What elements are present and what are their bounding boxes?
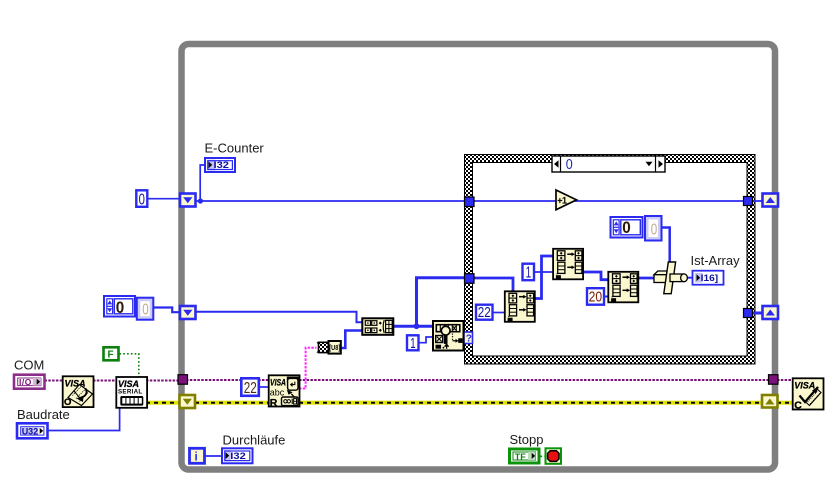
numeric indicator box (outside loop) [137,298,154,320]
svg-text:Stopp: Stopp [510,432,544,447]
insert-into-array spool function [654,262,687,294]
svg-text:TF: TF [515,452,526,462]
VISA read function [269,375,300,409]
case structure border [465,155,756,365]
svg-text:0: 0 [622,218,631,237]
svg-text:COM: COM [14,358,44,373]
wire: 20 constant to array-subset C [604,296,609,298]
VISA resource wire: VISA read to right tunnel [299,379,770,381]
shift register right top (counter) [763,194,779,207]
1 constant (to array-subset A) [523,264,535,282]
+1 increment function [556,190,577,210]
case selector terminal [464,332,473,345]
case selector label [552,156,665,173]
wire: array branch up into case tunnel [417,278,466,327]
Baudrate label [17,407,70,422]
svg-text:22: 22 [478,304,491,321]
loop tunnel purple left [178,375,188,385]
string wire: VISA read to string-to-byte-array [299,348,317,389]
loop stop condition terminal [546,448,562,464]
1 constant (search index) [407,335,419,352]
Durchlaeufe I32 indicator [222,448,253,463]
case tunnel right top [744,197,753,206]
wire: build array output to search array [393,325,433,328]
wire junction dot [414,323,420,329]
wire: Baudrate U32 to VISA serial [48,407,120,431]
svg-text:[U8]: [U8] [329,343,340,352]
VISA close function [793,378,824,411]
wire: case numeric pair down to spool [662,228,670,264]
svg-text:Baudrate: Baudrate [17,407,70,422]
numeric indicator box (inside case) [645,216,662,241]
array-subset function A [553,249,583,279]
svg-text:U32: U32 [22,426,39,436]
svg-text:22: 22 [244,380,257,397]
boolean wire: TF control to stop terminal [541,455,546,457]
loop tunnel purple right [769,375,779,385]
case tunnel left top [465,197,475,207]
svg-text:I16]: I16] [701,273,719,283]
error wire: right shift register to VISA close [777,401,793,405]
shift register right bottom (error) [762,395,778,408]
wire: main counter line through loop and case [195,200,763,202]
array-subset function C [608,272,638,303]
VISA resource wire: VISA serial to loop tunnel [146,380,179,382]
wire: numeric control to middle shift register [154,308,182,313]
svg-text:0: 0 [139,191,146,208]
shift register left bottom (error) [180,395,196,408]
VISA resource wire: COM control to VISA open [45,380,64,382]
COM I/O control [14,375,45,389]
wire: spool output to Ist-Array indicator [687,277,693,279]
wire: case tunnel to array-subset B [474,278,513,292]
wire: array-subset B output up to array-subset A [536,256,554,299]
numeric control (outside loop, array size) [104,296,135,317]
Baudrate U32 control [17,423,48,438]
F boolean constant [104,347,119,360]
E-Counter label [205,141,265,156]
wire: main array out of case to right shift register [752,312,763,315]
wire: search array 1 constant elbow [419,337,434,343]
shift register left top (counter) [180,194,196,207]
svg-text:VISA: VISA [794,381,815,391]
svg-text:0: 0 [116,298,125,317]
error wire: VISA read to right shift register [299,401,762,405]
Ist-Array label [691,253,741,268]
E-Counter I32 indicator [205,158,235,172]
VISA resource wire: VISA open to VISA serial [93,380,117,382]
boolean wire: F constant to VISA serial [120,354,139,377]
svg-text:Durchläufe: Durchläufe [223,433,286,448]
svg-text:I/O: I/O [19,377,32,387]
wire: array-subset C output to insert-array spool [638,277,656,280]
Ist-Array I16 indicator [693,271,724,285]
build array function [362,318,393,335]
svg-text:?: ? [466,334,472,345]
search 1D array function [433,321,464,351]
wire: array-subset A output to array-subset C [583,272,608,280]
svg-text:R: R [270,397,278,409]
wire: i terminal to Durchlaeufe indicator [205,455,222,457]
svg-text:Ist-Array: Ist-Array [691,253,741,268]
case tunnel left middle [465,274,475,284]
Durchlaeufe label [223,433,286,448]
VISA resource wire: tunnel to VISA read [186,379,269,381]
Stopp label [510,432,544,447]
VISA configure serial port function [116,377,147,408]
VISA open function [63,376,94,408]
22 constant (byte count) [241,378,258,397]
error wire: VISA serial to left shift register [146,401,180,405]
COM label [14,358,44,373]
wire: string-to-byte-array to build array input 2 [341,331,363,349]
svg-text:I32: I32 [230,451,246,461]
svg-text:i: i [195,451,198,463]
wire: branch to E-Counter indicator [198,165,205,204]
svg-text:20: 20 [589,288,603,305]
build array right grid [386,320,393,332]
22 constant (inside case) [476,304,493,321]
i iteration terminal [190,448,205,463]
svg-text:F: F [108,350,114,361]
while loop border [182,44,776,470]
svg-text:0: 0 [142,302,149,319]
svg-text:0: 0 [566,157,573,173]
svg-text:0: 0 [651,221,658,238]
array-subset function B [505,291,535,322]
case tunnel right middle [744,309,753,318]
wire: 22 constant to array-subset B [492,312,505,314]
svg-text:C: C [794,400,802,412]
Stopp TF boolean control [510,449,540,463]
shift register left middle (array) [180,306,196,319]
svg-text:SERIAL: SERIAL [118,389,143,396]
numeric control (inside case) [611,217,643,238]
wire: middle shift register to build array input 1 [195,312,363,323]
string to byte array function [317,341,341,354]
20 constant (to array-subset C) [587,288,604,305]
svg-text:VISA: VISA [270,377,286,387]
wire: 22 constant to VISA read [259,386,269,388]
wire: 1 constant to array-subset A [534,271,553,273]
svg-text:+1: +1 [557,196,567,206]
VISA resource wire: right tunnel to VISA close [777,379,793,381]
error wire: shift register to VISA read [195,401,269,405]
0 constant (counter init) [136,190,147,208]
svg-text:1: 1 [526,264,532,281]
wire: 0 constant to left shift register [146,198,181,200]
svg-text:VISA: VISA [118,379,139,389]
svg-text:1: 1 [410,335,415,352]
svg-text:I32: I32 [214,160,230,170]
shift register right middle (array) [763,306,779,319]
svg-text:E-Counter: E-Counter [205,141,265,156]
